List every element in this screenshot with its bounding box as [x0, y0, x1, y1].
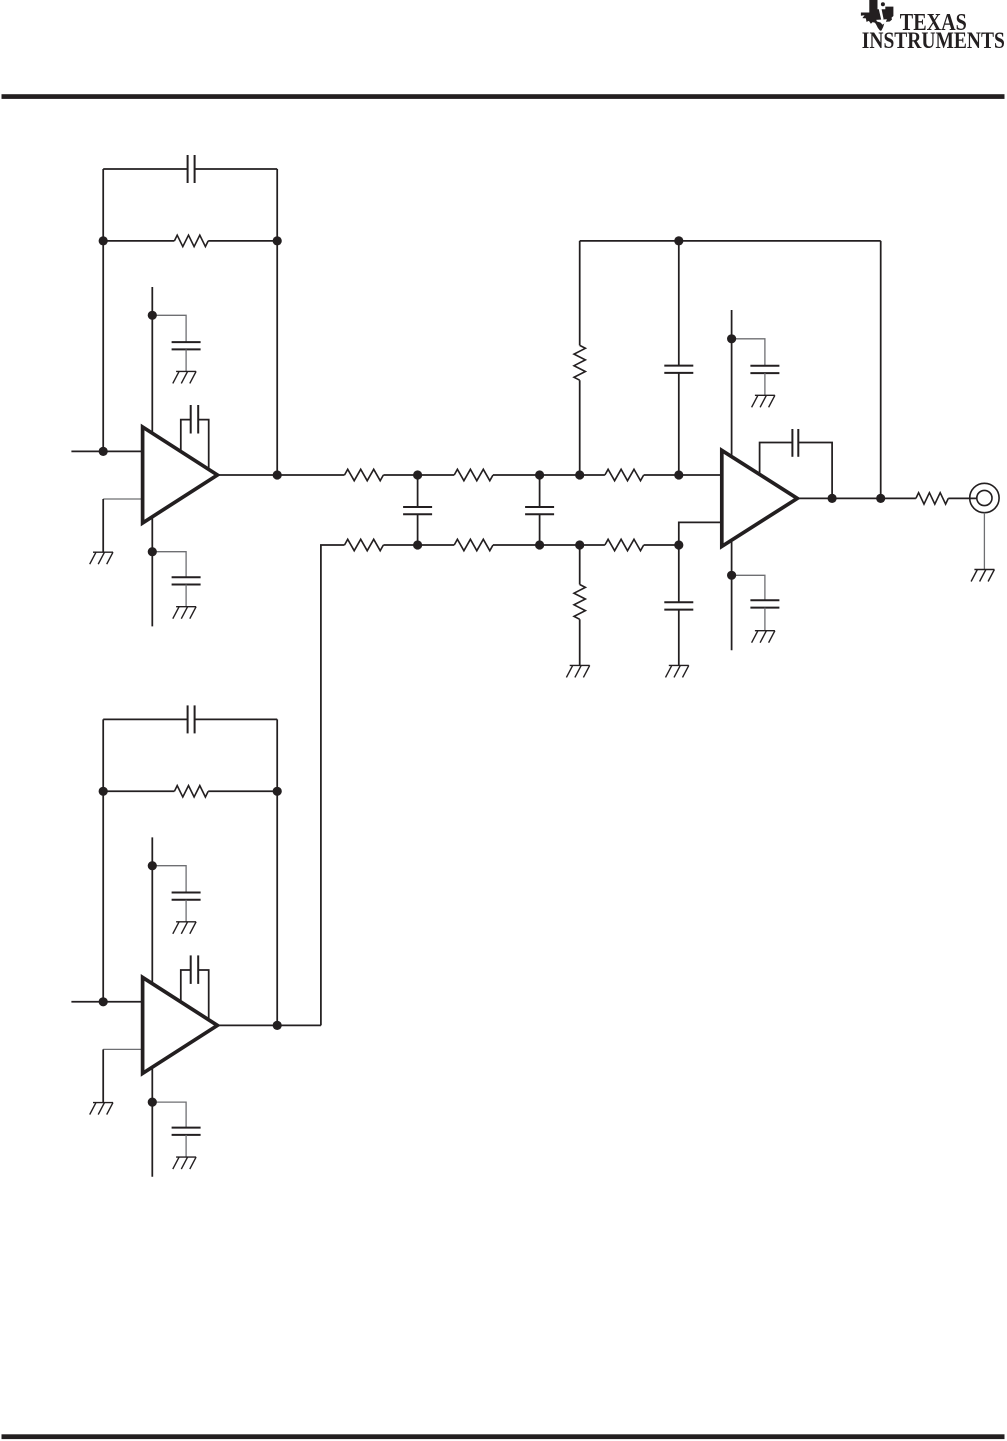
ground (lower bypass): [173, 1157, 196, 1169]
junction (supply upper): [148, 861, 157, 870]
Texas Instruments logo: [861, 0, 1005, 53]
capacitor C13 (supply bypass): [152, 866, 200, 922]
ground (inverting input): [90, 1103, 113, 1115]
wire (from U3 output riser): [321, 545, 345, 1025]
ground (connector): [971, 570, 994, 582]
wire (to U2 +IN): [679, 474, 722, 476]
wire (left feedback rail): [102, 719, 104, 1001]
wire (U2 output): [797, 497, 916, 499]
junction (feedback right): [273, 236, 282, 245]
capacitor C7 (to top rail): [664, 241, 693, 475]
wire (right feedback rail): [276, 169, 278, 475]
power rail +Vs (U1): [151, 287, 153, 626]
wire (inverting input to ground): [103, 499, 142, 552]
power rail +Vs (U3): [151, 837, 153, 1176]
capacitor C8 (to ground): [664, 545, 693, 665]
capacitor C4 (compensation): [181, 405, 209, 471]
junction (top rail): [674, 236, 683, 245]
capacitor C5: [403, 475, 432, 545]
svg-text:INSTRUMENTS: INSTRUMENTS: [862, 28, 1005, 53]
junction (U2 +IN node): [674, 470, 683, 479]
ground (inverting input): [90, 552, 113, 564]
resistor R6: [345, 539, 418, 550]
ground (upper bypass): [173, 922, 196, 934]
wire (bottom row): [540, 544, 580, 546]
wire (top feedback rail): [580, 240, 881, 242]
wire (inverting input to ground): [103, 1049, 142, 1102]
junction (feedback tap): [876, 494, 885, 503]
wire (U3 output to riser): [277, 1024, 321, 1026]
resistor R1 (feedback): [103, 235, 277, 246]
wire (feedback right rail): [880, 241, 882, 499]
junction (feedback left): [99, 787, 108, 796]
junction (feedback left): [99, 236, 108, 245]
junction (output): [273, 470, 282, 479]
junction (noninverting input): [99, 447, 108, 456]
resistor R11 (feedback): [103, 786, 277, 797]
wire (to U2 -IN): [679, 522, 722, 545]
junction (output): [273, 1021, 282, 1030]
junction (supply lower): [148, 1098, 157, 1107]
capacitor C2 (supply bypass): [152, 315, 200, 371]
output connector J1: [970, 483, 999, 512]
ground (lower bypass): [173, 607, 196, 619]
junction (R5 tap): [575, 470, 584, 479]
ground (U2 lower bypass): [752, 631, 775, 643]
junction (feedback right): [273, 787, 282, 796]
junction (U2 -IN node): [674, 540, 683, 549]
wire (output): [217, 474, 277, 476]
power rail +Vs (U2): [731, 310, 733, 650]
node B (top): [535, 470, 544, 479]
capacitor C9 (supply bypass): [732, 339, 780, 396]
capacitor C3 (supply bypass): [152, 552, 200, 607]
resistor R5 (to top rail): [574, 241, 585, 475]
capacitor C11 (U2 feedback): [760, 429, 833, 498]
wire (left feedback rail): [102, 169, 104, 451]
op-amp U3: [143, 977, 218, 1073]
junction (supply upper): [148, 311, 157, 320]
resistor R10 (output): [916, 493, 977, 504]
junction (C11 tap): [828, 494, 837, 503]
capacitor C15 (compensation): [181, 955, 209, 1021]
node A (top): [413, 470, 422, 479]
node B (bottom): [535, 540, 544, 549]
node A (bottom): [413, 540, 422, 549]
resistor R8: [580, 539, 679, 550]
junction (noninverting input): [99, 997, 108, 1006]
junction (U2 supply upper): [727, 334, 736, 343]
capacitor C14 (supply bypass): [152, 1102, 200, 1157]
ground (C8): [666, 665, 689, 677]
resistor R7: [418, 539, 540, 550]
junction (supply lower): [148, 547, 157, 556]
resistor R9 (to ground): [574, 545, 585, 665]
ground (upper bypass): [173, 371, 196, 383]
resistor R2: [277, 469, 417, 480]
junction (R9 tap): [575, 540, 584, 549]
capacitor C1 (feedback): [103, 155, 277, 183]
op-amp U1: [143, 427, 218, 523]
resistor R3: [418, 469, 540, 480]
op-amp U2: [722, 450, 798, 546]
capacitor C12 (feedback): [103, 705, 277, 733]
capacitor C10 (supply bypass): [732, 575, 780, 630]
wire (top row): [540, 474, 580, 476]
capacitor C6: [525, 475, 554, 545]
wire (right feedback rail): [276, 719, 278, 1025]
wire (output): [217, 1024, 277, 1026]
wire (connector shield): [983, 513, 985, 570]
wire (noninverting input): [71, 450, 142, 452]
ground (R9): [566, 665, 589, 677]
wire (noninverting input): [71, 1001, 142, 1003]
junction (U2 supply lower): [727, 571, 736, 580]
ground (U2 upper bypass): [752, 395, 775, 407]
resistor R4: [580, 469, 679, 480]
